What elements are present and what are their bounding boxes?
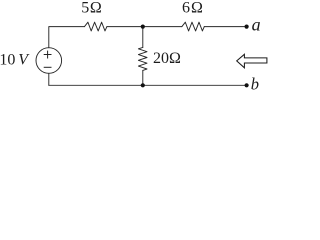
label 20 ohm (153, 50, 181, 67)
resistor R3 20ohm (138, 47, 147, 70)
svg-text:6: 6 (182, 0, 190, 17)
node junction top (141, 25, 145, 29)
label 10V (0, 51, 30, 68)
svg-text:b: b (251, 75, 259, 94)
resistor R1 5ohm (85, 22, 107, 31)
svg-text:20: 20 (153, 50, 169, 67)
svg-text:Ω: Ω (169, 50, 181, 67)
svg-text:10: 10 (0, 51, 15, 68)
label 6 ohm (182, 0, 203, 17)
wire source bottom lead (48, 73, 50, 85)
wire top-right to terminal a (204, 26, 246, 28)
wire top-mid (107, 26, 182, 28)
svg-text:a: a (252, 15, 261, 35)
label 5 ohm (81, 0, 102, 17)
node terminal a dot (245, 25, 249, 29)
resistor R2 6ohm (182, 22, 204, 31)
wire middle branch upper lead (142, 27, 144, 48)
arrow indicator (237, 54, 267, 68)
wire bottom to terminal b (49, 84, 247, 86)
svg-text:Ω: Ω (191, 0, 203, 17)
wire middle branch lower lead (142, 70, 144, 85)
wire top-left horizontal (49, 27, 85, 48)
source V1 circle (36, 48, 62, 74)
node terminal b dot (245, 83, 249, 87)
node junction bottom (141, 83, 145, 87)
svg-text:Ω: Ω (90, 0, 102, 17)
source plus sign (44, 54, 52, 56)
source minus sign (44, 66, 52, 68)
svg-text:5: 5 (81, 0, 89, 17)
